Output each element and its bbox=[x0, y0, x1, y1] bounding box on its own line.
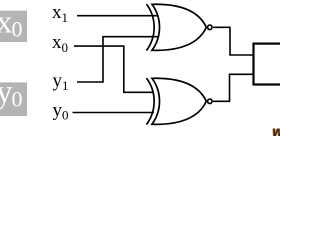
svg-text:w: w bbox=[273, 124, 281, 139]
svg-text:y: y bbox=[53, 71, 63, 92]
input label y1 bbox=[53, 71, 69, 94]
input label x1 bbox=[52, 2, 68, 25]
wire U1 output bbox=[213, 27, 254, 55]
svg-text:0: 0 bbox=[62, 40, 69, 55]
highlight box x0 bbox=[0, 5, 27, 42]
svg-text:y: y bbox=[53, 100, 63, 121]
svg-text:1: 1 bbox=[62, 10, 69, 25]
xnor gate U1 bbox=[147, 4, 213, 50]
highlight box y0 bbox=[0, 75, 27, 117]
and box U3 bbox=[254, 44, 294, 85]
wire x0 bbox=[74, 46, 153, 92]
wire U2 output bbox=[213, 74, 254, 101]
wire y0 bbox=[73, 112, 155, 114]
input label y0 bbox=[53, 100, 69, 123]
svg-text:x: x bbox=[52, 32, 62, 53]
xnor gate U2 bbox=[147, 78, 213, 124]
svg-text:0: 0 bbox=[12, 87, 23, 112]
wire x1 bbox=[77, 15, 158, 17]
input label x0 bbox=[52, 32, 68, 55]
svg-text:1: 1 bbox=[62, 78, 69, 93]
svg-text:0: 0 bbox=[62, 107, 69, 122]
wire y1 bbox=[77, 37, 158, 82]
svg-text:x: x bbox=[52, 2, 62, 23]
svg-text:0: 0 bbox=[12, 17, 23, 42]
